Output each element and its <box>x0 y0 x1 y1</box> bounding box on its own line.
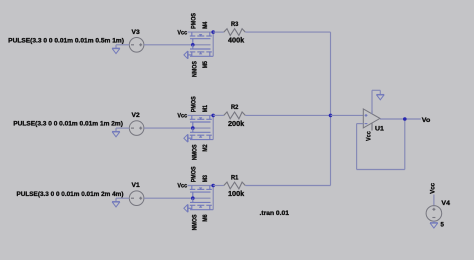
svg-text:200k: 200k <box>228 121 244 128</box>
op-amp U1 <box>363 109 384 133</box>
wire R1 to summing bus <box>245 185 330 187</box>
ground at nmos source M2 <box>188 137 192 139</box>
voltage source V1 <box>129 182 144 205</box>
Vcc rail wire <box>188 185 214 187</box>
wire from V1 minus terminal to ground <box>116 197 129 199</box>
svg-text:.tran 0.01: .tran 0.01 <box>260 210 290 217</box>
wire V2 to inverter gate <box>144 127 193 129</box>
svg-text:R1: R1 <box>231 174 239 181</box>
voltage source V4 <box>426 200 450 228</box>
inverter output vertical wire <box>212 115 214 139</box>
wire V3 to inverter gate <box>144 44 193 46</box>
wire op-amp positive supply to ground <box>371 90 373 114</box>
svg-text:100k: 100k <box>228 191 244 198</box>
svg-text:R3: R3 <box>231 21 239 28</box>
Vcc rail wire <box>188 31 214 33</box>
svg-text:Vcc: Vcc <box>177 183 187 190</box>
nmos transistor M6 <box>190 198 213 230</box>
ground at V3 <box>112 47 120 49</box>
svg-text:M6: M6 <box>202 214 209 222</box>
svg-text:U1: U1 <box>375 126 384 133</box>
svg-text:M2: M2 <box>202 144 209 152</box>
inverter input junction <box>193 127 211 129</box>
svg-text:NMOS: NMOS <box>192 215 199 231</box>
svg-text:V2: V2 <box>132 112 141 119</box>
wire summing node to op-amp noninverting input <box>331 114 364 116</box>
wire inverter output to resistor R1 <box>213 185 224 187</box>
output junction node <box>403 117 407 121</box>
inverter output vertical wire <box>212 186 214 210</box>
ground below V4 <box>430 222 438 224</box>
voltage source V3 <box>129 29 144 52</box>
pmos transistor M1 <box>190 96 212 128</box>
svg-text:Vcc: Vcc <box>429 183 436 194</box>
pmos transistor M4 <box>190 13 212 45</box>
svg-text:M5: M5 <box>202 61 209 69</box>
svg-text:V3: V3 <box>132 29 141 36</box>
svg-text:M1: M1 <box>202 105 209 113</box>
nmos transistor M2 <box>190 128 213 160</box>
ground at nmos source M6 <box>188 207 192 209</box>
svg-text:M4: M4 <box>202 21 209 29</box>
svg-text:PMOS: PMOS <box>191 96 198 112</box>
summing node junction <box>329 114 333 118</box>
inverter input junction <box>193 44 211 46</box>
ground at V1 <box>112 201 120 203</box>
svg-text:R2: R2 <box>231 104 239 111</box>
voltage source V2 <box>129 112 144 135</box>
inverter input junction <box>193 197 211 199</box>
wire inverter output to resistor R2 <box>213 114 224 116</box>
svg-text:M3: M3 <box>202 175 209 183</box>
ground at nmos source M5 <box>188 54 192 56</box>
ground at V2 <box>112 131 120 133</box>
resistor R1 <box>224 174 246 198</box>
wire from V3 minus terminal to ground <box>116 44 129 46</box>
nmos transistor M5 <box>190 45 213 77</box>
svg-text:Vo: Vo <box>422 117 431 124</box>
svg-text:V1: V1 <box>132 182 141 189</box>
feedback wire output to inverting input <box>357 123 364 125</box>
wire Vcc label to V4 <box>433 195 435 207</box>
svg-text:Vcc: Vcc <box>177 113 187 120</box>
svg-text:PULSE(3.3 0 0 0.01m 0.01m 2m 4: PULSE(3.3 0 0 0.01m 0.01m 2m 4m) <box>17 191 124 198</box>
svg-text:Vcc: Vcc <box>177 29 187 36</box>
pmos transistor M3 <box>190 166 212 198</box>
wire from V2 minus terminal to ground <box>116 127 129 129</box>
wire R3 to summing bus <box>245 31 330 33</box>
svg-text:400k: 400k <box>228 38 244 45</box>
svg-text:NMOS: NMOS <box>192 144 199 160</box>
svg-text:PULSE(3.3 0 0 0.01m 0.01m 0.5m: PULSE(3.3 0 0 0.01m 0.01m 0.5m 1m) <box>8 37 124 44</box>
svg-text:5: 5 <box>441 221 445 228</box>
op-amp output wire <box>380 118 421 120</box>
Vcc rail wire <box>188 114 214 116</box>
svg-text:PMOS: PMOS <box>191 13 198 29</box>
svg-text:PULSE(3.3 0 0 0.01m 0.01m 1m 2: PULSE(3.3 0 0 0.01m 0.01m 1m 2m) <box>13 121 123 128</box>
svg-text:V4: V4 <box>441 200 450 207</box>
inverter output vertical wire <box>212 32 214 56</box>
svg-text:Vcc: Vcc <box>365 131 372 141</box>
resistor R2 <box>224 104 246 128</box>
wire V4 to ground <box>433 221 435 223</box>
svg-text:PMOS: PMOS <box>191 166 198 182</box>
resistor R3 <box>224 21 246 45</box>
wire V1 to inverter gate <box>144 197 193 199</box>
wire R2 to summing bus <box>245 114 330 116</box>
summing bus vertical wire (R3 down / R1 up) <box>330 32 332 185</box>
ground above op-amp <box>376 94 384 96</box>
svg-text:NMOS: NMOS <box>192 61 199 77</box>
wire inverter output to resistor R3 <box>213 31 224 33</box>
